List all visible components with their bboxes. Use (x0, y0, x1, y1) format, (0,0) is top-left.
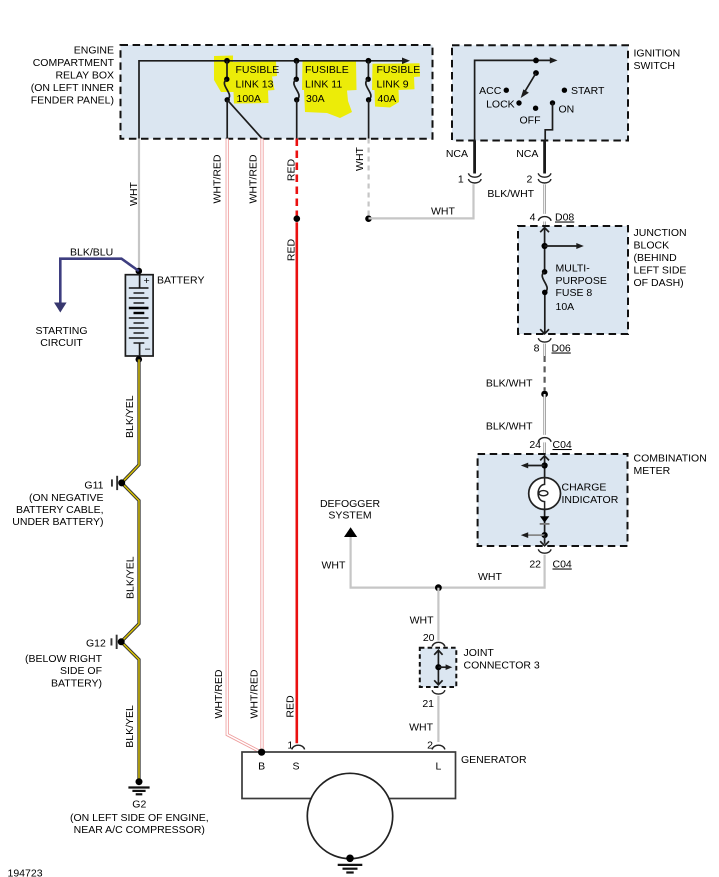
label G12 (25, 638, 106, 690)
svg-text:BATTERY: BATTERY (157, 275, 204, 287)
svg-text:ENGINE: ENGINE (74, 45, 114, 57)
node meter branch lower (521, 532, 548, 538)
svg-text:WHT: WHT (478, 571, 502, 583)
junction block box (518, 226, 628, 334)
svg-text:100A: 100A (237, 93, 262, 105)
svg-text:WHT: WHT (410, 615, 434, 627)
svg-text:2: 2 (427, 740, 433, 752)
svg-text:STARTING: STARTING (35, 325, 87, 337)
svg-text:S: S (292, 761, 299, 773)
connector D08 pin 4 (530, 212, 575, 227)
svg-text:FUSIBLE: FUSIBLE (305, 64, 349, 76)
defogger system arrow (344, 527, 357, 537)
svg-text:BATTERY): BATTERY) (51, 678, 102, 690)
svg-text:WHT/RED: WHT/RED (213, 669, 225, 718)
node RED splice (294, 215, 301, 222)
svg-text:20: 20 (423, 632, 435, 644)
relay box label (31, 45, 115, 107)
svg-text:BLK/WHT: BLK/WHT (487, 188, 534, 200)
wire WHT (relay box to battery) (138, 139, 140, 269)
label WHT (horizontal run) (431, 206, 455, 218)
generator pin 2 connector (427, 740, 445, 752)
svg-text:CHARGE: CHARGE (562, 482, 607, 494)
label figure number (8, 868, 43, 877)
svg-text:BLK/WHT: BLK/WHT (486, 421, 533, 433)
junction block internal wire (540, 228, 549, 334)
fusible link FL9 (FUSIBLE LINK 9 40A) (366, 58, 372, 139)
label NCA pin1 (446, 148, 468, 160)
node START position (562, 85, 605, 97)
node generator B junction (258, 749, 265, 756)
svg-text:30A: 30A (306, 93, 325, 105)
svg-text:G2: G2 (132, 799, 146, 811)
bus wire (relay box feed) (139, 58, 410, 139)
svg-text:FUSIBLE: FUSIBLE (377, 64, 421, 76)
label WHT (above generator) (409, 722, 433, 734)
label RED (middle) (285, 238, 297, 261)
joint connector 3 box (420, 648, 457, 687)
svg-text:194723: 194723 (8, 868, 43, 877)
generator armature circle (307, 773, 392, 858)
wire (FL13 second output diagonal) (227, 100, 262, 139)
wire BLK/BLU (to starting circuit) (54, 259, 139, 313)
label WHT/RED (upper left) (212, 154, 224, 203)
fusible link FL11 (FUSIBLE LINK 11 30A) (294, 58, 300, 139)
label FL11 (305, 64, 349, 105)
highlight FL13 (214, 56, 277, 104)
svg-text:BLK/YEL: BLK/YEL (124, 395, 136, 438)
node joint connector junction (435, 664, 452, 670)
svg-text:WHT: WHT (409, 722, 433, 734)
svg-text:B: B (258, 761, 265, 773)
svg-text:CONNECTOR 3: CONNECTOR 3 (464, 660, 540, 672)
label G11 (12, 480, 103, 529)
svg-text:−: − (145, 343, 151, 355)
node BLK/WHT splice (541, 391, 548, 398)
svg-text:C04: C04 (553, 439, 572, 451)
svg-text:D06: D06 (552, 343, 571, 355)
label WHT (battery feed) (128, 181, 140, 205)
svg-text:RED: RED (285, 695, 297, 718)
wire BLK/WHT (splice to C04) (543, 394, 546, 435)
label BLK/BLU (70, 247, 113, 259)
battery (125, 275, 153, 356)
svg-text:WHT: WHT (322, 560, 346, 572)
label WHT (above pin 20) (410, 615, 434, 627)
node battery negative junction (136, 356, 143, 363)
svg-text:IGNITION: IGNITION (634, 48, 681, 60)
ground G12 (111, 635, 125, 649)
label IGNITION SWITCH (634, 48, 681, 73)
label starting circuit (35, 325, 87, 349)
connector C04 pin 22 (529, 549, 572, 570)
wire BLK/WHT dashed (D06 to splice) (543, 356, 545, 391)
label FL9 (377, 64, 421, 105)
svg-text:SYSTEM: SYSTEM (328, 510, 371, 522)
svg-text:PURPOSE: PURPOSE (556, 275, 607, 287)
generator ground (338, 855, 363, 873)
node junction block branch (542, 243, 584, 249)
node LOCK position (486, 98, 522, 110)
svg-text:WHT: WHT (128, 181, 140, 205)
label BLK/YEL (upper) (124, 395, 136, 438)
svg-text:SIDE OF: SIDE OF (60, 665, 102, 677)
label WHT (FL9) (354, 146, 366, 170)
label BLK/YEL (lower) (124, 705, 136, 748)
ground G11 (111, 476, 125, 490)
node ON position (550, 100, 574, 115)
lamp charge indicator (529, 478, 561, 510)
label BATTERY (157, 275, 204, 287)
wire WHT/RED (FL13 output 2, to generator B) (260, 139, 264, 753)
svg-text:WHT/RED: WHT/RED (212, 154, 224, 203)
fuse F8 (multi-purpose fuse 8 10A) (542, 269, 548, 295)
node ACC position (479, 85, 509, 97)
wire RED dashed segment (FL11 output) (295, 139, 298, 216)
label BLK/WHT (upper) (487, 188, 534, 200)
label JUNCTION BLOCK (634, 227, 687, 289)
svg-text:WHT: WHT (431, 206, 455, 218)
wire NCA pin 2 stub (543, 141, 546, 174)
label RED (upper) (285, 158, 297, 181)
label WHT/RED (lower right) (249, 669, 261, 718)
svg-text:RELAY BOX: RELAY BOX (55, 70, 114, 82)
label WHT (left segment) (322, 560, 346, 572)
label WHT/RED (lower left) (213, 669, 225, 718)
svg-text:INDICATOR: INDICATOR (562, 494, 619, 506)
label BLK/WHT (lower) (486, 421, 533, 433)
relay box (engine compartment relay box) (121, 45, 433, 139)
svg-text:1: 1 (287, 740, 293, 752)
wire WHT (splice down to joint connector pin 20) (437, 588, 439, 641)
svg-text:MULTI-: MULTI- (556, 263, 591, 275)
svg-text:(BELOW RIGHT: (BELOW RIGHT (25, 653, 103, 665)
svg-text:UNDER BATTERY): UNDER BATTERY) (12, 516, 103, 528)
svg-text:ACC: ACC (479, 85, 502, 97)
svg-text:NCA: NCA (446, 148, 468, 160)
svg-text:BLOCK: BLOCK (634, 240, 670, 252)
svg-text:COMBINATION: COMBINATION (634, 453, 707, 465)
svg-text:RED: RED (285, 158, 297, 181)
diode symbol below lamp (540, 509, 550, 535)
label FL13 (236, 64, 280, 105)
label fuse F8 (556, 263, 607, 314)
svg-text:L: L (435, 761, 441, 773)
svg-text:LINK 9: LINK 9 (377, 78, 409, 90)
svg-text:4: 4 (530, 212, 536, 224)
label BLK/YEL (middle) (124, 556, 136, 599)
svg-text:1: 1 (458, 173, 464, 185)
connector pin 21 (422, 690, 445, 710)
wire RED solid (to generator S) (295, 222, 298, 743)
svg-text:METER: METER (634, 465, 671, 477)
combination meter box (478, 454, 628, 546)
svg-text:ON: ON (559, 104, 575, 116)
svg-text:BLK/YEL: BLK/YEL (124, 556, 136, 599)
svg-text:START: START (571, 85, 605, 97)
node ignition rotor pivot (533, 58, 539, 76)
wire WHT dashed (FL9 output) (368, 139, 370, 216)
generator box (242, 752, 456, 799)
svg-text:LINK 13: LINK 13 (236, 78, 274, 90)
svg-text:WHT/RED: WHT/RED (249, 669, 261, 718)
label NCA pin2 (516, 148, 538, 160)
svg-text:FUSIBLE: FUSIBLE (236, 64, 280, 76)
svg-text:OFF: OFF (520, 115, 541, 127)
fusible link FL13 (FUSIBLE LINK 13 100A) (224, 58, 230, 139)
svg-text:WHT/RED: WHT/RED (247, 154, 259, 203)
svg-text:LOCK: LOCK (486, 98, 515, 110)
label COMBINATION METER (634, 453, 707, 478)
svg-text:BLK/WHT: BLK/WHT (486, 378, 533, 390)
joint connector internal wire (434, 650, 442, 685)
svg-text:G12: G12 (86, 638, 106, 650)
svg-text:FENDER PANEL): FENDER PANEL) (31, 95, 114, 107)
svg-text:SWITCH: SWITCH (634, 60, 675, 72)
label BLK/WHT (mid) (486, 378, 533, 390)
node WHT splice (defogger branch) (435, 584, 442, 591)
svg-text:(ON NEGATIVE: (ON NEGATIVE (29, 492, 103, 504)
label WHT (right segment) (478, 571, 502, 583)
wire WHT (pin 21 to generator L) (437, 696, 439, 742)
svg-text:D08: D08 (555, 212, 574, 224)
svg-text:WHT: WHT (354, 146, 366, 170)
svg-text:8: 8 (534, 343, 540, 355)
label RED (lower) (285, 695, 297, 718)
ground G2 (128, 778, 149, 794)
svg-text:G11: G11 (84, 480, 103, 492)
label CHARGE INDICATOR (562, 482, 619, 507)
label JOINT CONNECTOR 3 (464, 647, 540, 672)
svg-text:CIRCUIT: CIRCUIT (40, 337, 83, 349)
wire BLK/YEL (battery negative to G2) (121, 359, 139, 781)
ignition rotor arm (arrow to LOCK) (521, 73, 536, 98)
connector D06 pin 8 (534, 338, 571, 356)
ignition switch feed wire (475, 57, 558, 140)
svg-text:(ON LEFT SIDE OF ENGINE,: (ON LEFT SIDE OF ENGINE, (70, 812, 209, 824)
generator pin 1 connector (287, 740, 304, 752)
highlight FL11 (302, 61, 357, 118)
connector C04 pin 24 (529, 438, 572, 454)
node OFF position (520, 106, 541, 127)
svg-text:21: 21 (422, 698, 434, 710)
svg-text:COMPARTMENT: COMPARTMENT (33, 57, 115, 69)
svg-text:40A: 40A (378, 93, 397, 105)
ignition switch box (452, 45, 628, 140)
highlight FL9 (372, 63, 420, 107)
svg-text:JOINT: JOINT (464, 647, 495, 659)
pin 1 connector (458, 173, 481, 185)
wire WHT (pin 22 to splice and defogger) (351, 537, 545, 588)
wire WHT (splice to ignition switch pin 1) (369, 184, 474, 218)
label generator terminals (258, 761, 441, 773)
svg-text:10A: 10A (556, 301, 575, 313)
node meter branch upper (521, 462, 548, 468)
svg-text:2: 2 (527, 173, 533, 185)
wire NCA pin 1 stub (473, 141, 476, 174)
svg-text:NEAR A/C COMPRESSOR): NEAR A/C COMPRESSOR) (74, 824, 205, 836)
svg-text:DEFOGGER: DEFOGGER (320, 498, 381, 510)
wire WHT/RED (FL13 output 1, to generator B) (227, 139, 261, 753)
svg-text:+: + (144, 275, 150, 287)
svg-text:FUSE 8: FUSE 8 (556, 287, 593, 299)
svg-text:RED: RED (285, 238, 297, 261)
svg-text:22: 22 (529, 559, 541, 571)
connector pin 20 (423, 632, 445, 647)
svg-text:BLK/YEL: BLK/YEL (124, 705, 136, 748)
pin 2 connector (527, 173, 551, 185)
wire BLK/WHT (pin2 to D08) (543, 184, 546, 213)
svg-text:(BEHIND: (BEHIND (634, 252, 678, 264)
node battery positive junction (136, 268, 143, 275)
node WHT splice (365, 215, 372, 222)
label G2 (70, 799, 209, 837)
svg-text:GENERATOR: GENERATOR (461, 754, 527, 766)
svg-text:LEFT SIDE: LEFT SIDE (634, 265, 687, 277)
meter entry wire (540, 456, 549, 478)
svg-text:OF DASH): OF DASH) (634, 277, 684, 289)
label DEFOGGER SYSTEM (320, 498, 381, 522)
label GENERATOR (461, 754, 527, 766)
label WHT/RED (upper right) (247, 154, 259, 203)
wire from ON contact (545, 103, 552, 141)
battery plates (129, 288, 149, 356)
svg-text:BATTERY CABLE,: BATTERY CABLE, (16, 504, 104, 516)
svg-text:(ON LEFT INNER: (ON LEFT INNER (31, 82, 115, 94)
meter exit wire (540, 535, 549, 546)
svg-text:LINK 11: LINK 11 (305, 78, 342, 90)
svg-text:NCA: NCA (516, 148, 538, 160)
svg-text:C04: C04 (553, 559, 572, 571)
svg-text:JUNCTION: JUNCTION (634, 227, 687, 239)
svg-text:BLK/BLU: BLK/BLU (70, 247, 113, 259)
